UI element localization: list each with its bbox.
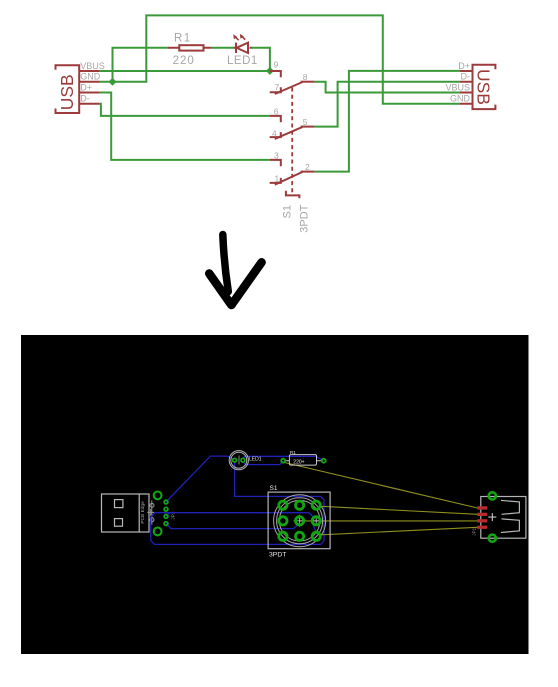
svg-text:220: 220 bbox=[173, 55, 195, 67]
svg-text:3PDT: 3PDT bbox=[298, 204, 310, 232]
svg-text:VBUS: VBUS bbox=[445, 82, 470, 92]
svg-text:1: 1 bbox=[275, 173, 280, 183]
svg-text:USB: USB bbox=[57, 74, 77, 110]
svg-text:6: 6 bbox=[274, 107, 279, 117]
svg-text:220+: 220+ bbox=[293, 459, 304, 465]
svg-text:GND: GND bbox=[80, 72, 101, 82]
svg-text:S1: S1 bbox=[281, 205, 293, 218]
svg-text:5: 5 bbox=[303, 117, 308, 127]
svg-text:VBUS: VBUS bbox=[80, 61, 105, 71]
svg-text:PCB Edge: PCB Edge bbox=[140, 501, 146, 524]
svg-text:LED1: LED1 bbox=[249, 456, 262, 462]
svg-text:8: 8 bbox=[303, 72, 308, 82]
svg-text:3: 3 bbox=[274, 151, 279, 161]
svg-text:D-: D- bbox=[461, 72, 471, 82]
svg-text:3PDT: 3PDT bbox=[269, 552, 286, 559]
svg-text:GND: GND bbox=[450, 94, 471, 104]
svg-text:D-: D- bbox=[80, 94, 90, 104]
svg-text:2: 2 bbox=[305, 162, 310, 172]
svg-text:S1: S1 bbox=[270, 485, 278, 492]
svg-text:USB: USB bbox=[474, 69, 494, 105]
svg-text:R1: R1 bbox=[290, 450, 296, 455]
svg-text:JP1: JP1 bbox=[471, 527, 476, 535]
svg-text:9: 9 bbox=[274, 60, 279, 70]
svg-text:R1: R1 bbox=[174, 33, 192, 45]
svg-text:LED1: LED1 bbox=[227, 55, 258, 67]
svg-text:D+: D+ bbox=[80, 82, 92, 92]
svg-text:4: 4 bbox=[272, 129, 277, 139]
svg-text:7: 7 bbox=[275, 82, 280, 92]
svg-text:D+: D+ bbox=[458, 61, 470, 71]
